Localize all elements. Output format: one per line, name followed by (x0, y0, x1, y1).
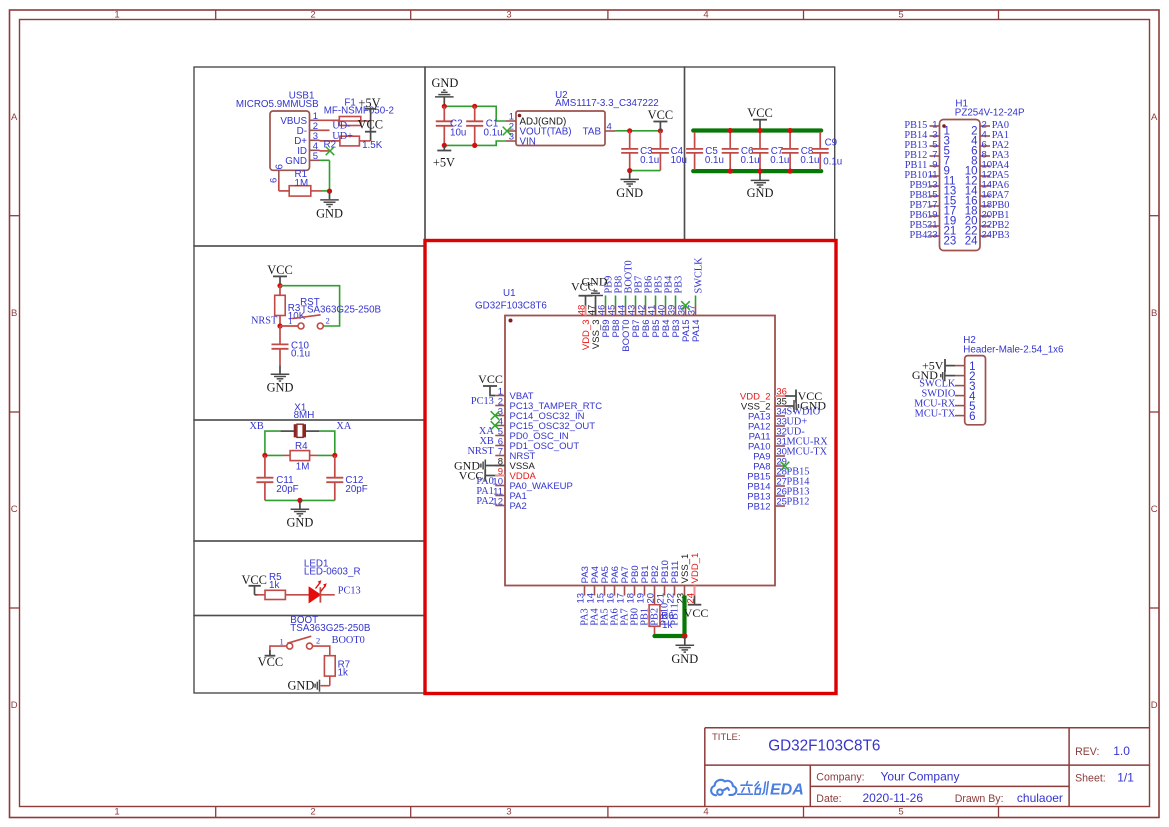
U2 pin 4 TAB stub (605, 130, 615, 132)
U1 pin 37 stub (695, 306, 697, 316)
H1 pin 24 stub (980, 235, 990, 237)
junction VCC C4 top (658, 128, 663, 133)
power flag +5V below rail (443, 145, 445, 150)
svg-text:TSA363G25-250B: TSA363G25-250B (290, 623, 371, 634)
ground GND below C3 (629, 171, 631, 179)
svg-text:6: 6 (275, 164, 286, 170)
svg-text:PB4: PB4 (910, 230, 928, 241)
logo LCEDA cloud (711, 780, 736, 795)
U1 VDD pin stub highlights (495, 475, 505, 477)
svg-text:VDD_1: VDD_1 (690, 553, 701, 584)
wire VCC thick rail top (693, 128, 821, 132)
U1 pin 43 stub (635, 306, 637, 316)
ground GND below MCU (684, 637, 686, 645)
svg-text:TITLE:: TITLE: (712, 732, 741, 743)
no-connect X on U1 pin29 (781, 462, 790, 471)
svg-text:Drawn By:: Drawn By: (955, 793, 1004, 805)
junction C2 top (442, 104, 447, 109)
junction NRST node (277, 323, 282, 328)
wire F1 to +5V node (361, 120, 371, 122)
svg-text:VCC: VCC (267, 263, 292, 277)
U2 pin1 marker dot (518, 114, 522, 118)
svg-text:1.0: 1.0 (1113, 744, 1130, 758)
capacitor C2 (443, 106, 445, 121)
U1 pin 29 stub (775, 465, 785, 467)
power flag VCC reset (279, 276, 281, 285)
U1 pin 18 stub (634, 586, 636, 596)
svg-text:SWCLK: SWCLK (694, 257, 705, 294)
U1 pin 7 stub (495, 455, 505, 457)
wire crystal bottom (265, 499, 335, 501)
wire +5V rail to U2 pin3 (444, 141, 506, 145)
power flag VCC boot (270, 646, 287, 656)
junction C3 top (627, 128, 632, 133)
svg-text:PC13: PC13 (471, 396, 494, 407)
H2 pin 4 stub (955, 395, 965, 397)
svg-text:PB3: PB3 (992, 230, 1010, 241)
svg-text:NRST: NRST (251, 316, 278, 327)
logo text LiChuang (738, 782, 769, 795)
junction C1 bottom (472, 143, 477, 148)
svg-text:5: 5 (313, 151, 318, 162)
svg-text:TAB: TAB (583, 127, 602, 138)
U1 pin 5 stub (495, 435, 505, 437)
svg-text:6: 6 (268, 178, 279, 183)
U1 pin 39 stub (675, 306, 677, 316)
H1 pin 5 stub (930, 145, 940, 147)
svg-text:PA14: PA14 (691, 320, 702, 343)
ground GND flag top-left of regulator (443, 98, 445, 107)
capacitor C10 (279, 326, 281, 344)
U1 pin 35 stub (775, 405, 785, 407)
power flag VCC caps rail (759, 120, 761, 129)
svg-text:PC13: PC13 (338, 585, 361, 596)
svg-text:0.1u: 0.1u (741, 155, 760, 166)
U1 pin 30 stub (775, 455, 785, 457)
svg-text:GND: GND (316, 206, 343, 220)
U1 pin 47 stub (595, 306, 597, 316)
svg-text:UD+: UD+ (332, 131, 353, 142)
junction crystal ground (297, 498, 302, 503)
svg-text:GND: GND (800, 399, 826, 413)
H2 pin 6 stub (955, 415, 965, 417)
svg-text:VCC: VCC (258, 655, 283, 669)
U1 pin 36 stub (775, 395, 785, 397)
svg-text:2: 2 (310, 10, 315, 21)
svg-text:0.1u: 0.1u (823, 156, 842, 167)
section box crystal (194, 420, 425, 541)
svg-text:24: 24 (965, 236, 978, 248)
USB1 pin 6 stub (278, 170, 280, 180)
no-connect X on USB pin4 (326, 147, 335, 156)
svg-text:8MH: 8MH (294, 410, 315, 421)
MCU U1 body (505, 316, 775, 586)
svg-text:XB: XB (250, 421, 264, 432)
svg-text:LED-0603_R: LED-0603_R (304, 567, 361, 578)
H2 pin 2 stub (955, 375, 965, 377)
U1 pin 25 stub (775, 505, 785, 507)
resistor R3 (279, 286, 281, 296)
svg-text:MCU-TX: MCU-TX (787, 446, 828, 457)
svg-text:Sheet:: Sheet: (1075, 772, 1106, 784)
H1 pin 23 stub (930, 235, 940, 237)
junction caps rail top (788, 128, 793, 133)
svg-text:EDA: EDA (770, 782, 804, 799)
svg-text:+5V: +5V (358, 96, 380, 110)
svg-text:1k: 1k (662, 620, 672, 631)
svg-text:PA2: PA2 (510, 501, 527, 512)
svg-text:2: 2 (316, 635, 320, 645)
junction VCC R3 top (277, 283, 282, 288)
svg-text:1: 1 (114, 10, 119, 21)
resistor R1 (289, 186, 311, 196)
wire R7 to ground (321, 685, 330, 687)
no-connect X on U1 pin4 (491, 421, 500, 430)
power flag +5V at H2 pin1 (945, 365, 955, 367)
svg-text:R4: R4 (295, 441, 308, 452)
wire R1 to ground junction (322, 190, 330, 192)
wire ID pin4 (320, 150, 330, 152)
wire C3 bottom to C4 bottom (630, 170, 661, 172)
U1 pin 19 stub (644, 586, 646, 596)
H1 pin 8 stub (980, 155, 990, 157)
H1 pin 11 stub (930, 175, 940, 177)
svg-text:MICRO5.9MMUSB: MICRO5.9MMUSB (236, 99, 319, 110)
regulator U2 body (516, 111, 605, 146)
svg-text:0.1u: 0.1u (770, 155, 789, 166)
junction caps rail top (757, 128, 762, 133)
connector USB1 body (270, 111, 310, 170)
U2 pin 1 stub (506, 120, 516, 122)
svg-text:1/1: 1/1 (1117, 770, 1134, 784)
svg-text:VCC: VCC (358, 117, 383, 131)
resistor R7 (324, 656, 335, 676)
svg-text:1M: 1M (295, 178, 309, 189)
svg-text:12: 12 (492, 496, 503, 507)
svg-text:3: 3 (506, 10, 511, 21)
H1 pin 19 stub (930, 215, 940, 217)
H1 pin 10 stub (980, 165, 990, 167)
svg-text:PB12: PB12 (787, 496, 810, 507)
svg-text:BOOT0: BOOT0 (332, 635, 365, 646)
wire VCC to R5 (255, 594, 259, 596)
U1 pin1 marker dot (509, 319, 513, 323)
junction USB ground node (327, 189, 332, 194)
wire VCC to switch pin2 loop (280, 286, 340, 326)
H1 pin 1 stub (930, 125, 940, 127)
capacitor C5 (694, 132, 696, 149)
power flag VCC for R2 (370, 121, 372, 141)
wire net stub BOOT0 (625, 296, 627, 306)
H1 pin 17 stub (930, 205, 940, 207)
svg-text:XA: XA (336, 421, 351, 432)
junction caps rail top (728, 128, 733, 133)
svg-text:0.1u: 0.1u (640, 155, 659, 166)
U2 pin 3 stub (506, 140, 516, 142)
switch RST TSA363G25-250B (298, 323, 304, 329)
junction C2 bottom (442, 143, 447, 148)
svg-text:20pF: 20pF (345, 484, 367, 495)
svg-text:4: 4 (703, 10, 708, 21)
resistor R5 (257, 594, 266, 596)
connector H1 body (940, 120, 981, 251)
connector H2 body (965, 356, 986, 425)
U1 pin 14 stub (594, 586, 596, 596)
U1 pin 45 stub (615, 306, 617, 316)
svg-text:1: 1 (279, 636, 283, 646)
svg-text:GND: GND (747, 186, 774, 200)
U1 pin 12 stub (495, 505, 505, 507)
wire net stub PB5 (655, 296, 657, 306)
junction XB node (262, 453, 267, 458)
junction caps rail bottom (728, 169, 733, 174)
U1 pin 40 stub (665, 306, 667, 316)
U1 pin 27 stub (775, 485, 785, 487)
U1 pin 42 stub (645, 306, 647, 316)
resistor R2 (340, 136, 360, 146)
svg-text:VCC: VCC (478, 372, 503, 386)
wire crystal loop right (319, 431, 334, 455)
ground GND caps rail (759, 172, 761, 180)
svg-text:UD-: UD- (332, 121, 351, 132)
power flag VCC at U1 pin48 (585, 296, 587, 306)
svg-text:U1: U1 (503, 288, 516, 299)
svg-text:A: A (1151, 112, 1158, 123)
U1 pin 44 stub (625, 306, 627, 316)
USB1 pin 4 stub (310, 149, 320, 151)
no-connect X on U2 pin2 (503, 127, 512, 136)
svg-text:4: 4 (703, 807, 708, 818)
capacitor C12 (334, 455, 336, 477)
svg-text:1: 1 (114, 807, 119, 818)
svg-text:PB12: PB12 (747, 502, 770, 513)
svg-text:REV:: REV: (1075, 746, 1099, 758)
svg-text:D: D (11, 700, 18, 711)
USB1 pin 1 stub (310, 119, 320, 121)
junction caps rail bottom (788, 169, 793, 174)
wire net stub PB9 (605, 296, 607, 306)
svg-text:GD32F103C8T6: GD32F103C8T6 (768, 737, 880, 754)
H1 pin 20 stub (980, 215, 990, 217)
U1 pin 21 stub (664, 586, 666, 596)
U1 pin 16 stub (614, 586, 616, 596)
wire VSS_1 to ground thick (682, 596, 686, 637)
U1 pin 22 stub (674, 586, 676, 596)
no-connect X on U1 pin3 (491, 411, 500, 420)
ground GND boot sideways (319, 680, 321, 692)
U1 pin 1 stub (495, 395, 505, 397)
wire GND pin5 to ground (320, 159, 330, 161)
title block outline (705, 727, 1150, 729)
junction C1 top (472, 104, 477, 109)
red highlight box around MCU (425, 241, 836, 694)
section box reset (194, 246, 425, 420)
svg-text:Your Company: Your Company (881, 770, 960, 784)
svg-text:10u: 10u (450, 128, 466, 139)
wire pin6 to R1 (278, 180, 280, 191)
svg-text:4: 4 (607, 122, 612, 133)
svg-text:1k: 1k (269, 580, 279, 591)
wire crystal loop left (265, 431, 281, 455)
svg-text:3: 3 (506, 807, 511, 818)
svg-text:VIN: VIN (520, 137, 536, 148)
section box regulator (425, 67, 685, 241)
svg-text:VCC: VCC (648, 108, 673, 122)
resistor R4 (283, 454, 290, 456)
U1 pin 11 stub (495, 495, 505, 497)
svg-text:chulaoer: chulaoer (1017, 791, 1063, 805)
fuse F1 (339, 117, 361, 126)
wire R4 right (317, 454, 335, 456)
svg-text:NRST: NRST (467, 446, 494, 457)
capacitor C3 (629, 131, 631, 149)
svg-text:VCC: VCC (459, 468, 484, 482)
H1 pin 3 stub (930, 135, 940, 137)
U1 pin 32 stub (775, 435, 785, 437)
U1 pin 6 stub (495, 445, 505, 447)
capacitor C6 (729, 132, 731, 149)
svg-text:20pF: 20pF (276, 484, 298, 495)
capacitor C7 (759, 132, 761, 149)
capacitor C8 (789, 132, 791, 149)
ground GND at U1 pin35 (785, 405, 794, 407)
svg-text:GND: GND (267, 381, 294, 395)
svg-text:23: 23 (927, 229, 938, 240)
H1 pin 4 stub (980, 135, 990, 137)
no-connect X on U1 pin38 (681, 301, 690, 310)
power flag VCC at U1 pin24 (694, 596, 696, 605)
U1 pin 8 stub (495, 465, 505, 467)
U1 pin 26 stub (775, 495, 785, 497)
svg-text:5: 5 (898, 807, 903, 818)
U1 pin 23 stub (684, 586, 686, 596)
svg-text:C: C (1151, 504, 1158, 515)
H2 pin 1 stub (955, 365, 965, 367)
svg-text:GND: GND (616, 186, 643, 200)
U1 pin 24 stub (694, 586, 696, 596)
H1 pin 9 stub (930, 165, 940, 167)
junction caps rail bottom (757, 169, 762, 174)
U1 pin 13 stub (584, 586, 586, 596)
H1 pin 16 stub (980, 195, 990, 197)
border column ticks (215, 10, 217, 20)
svg-text:10u: 10u (671, 155, 687, 166)
wire GND thick rail bottom (693, 169, 821, 173)
svg-text:TSA363G25-250B: TSA363G25-250B (301, 305, 382, 316)
capacitor C11 (264, 455, 266, 477)
svg-text:B: B (1151, 308, 1157, 319)
svg-text:1: 1 (288, 316, 292, 326)
USB1 pin 3 stub (310, 139, 320, 141)
wire GND rail to U2 pin1 (444, 106, 506, 121)
svg-text:GND: GND (285, 156, 307, 167)
capacitor C9 (819, 132, 821, 149)
wire D+ pin3 to R2 (320, 140, 340, 142)
svg-text:2020-11-26: 2020-11-26 (863, 791, 924, 805)
H1 pin 21 stub (930, 225, 940, 227)
section box BOOT (194, 616, 425, 694)
H1 pin 7 stub (930, 155, 940, 157)
USB1 pin 5 stub (310, 159, 320, 161)
svg-text:2: 2 (310, 807, 315, 818)
svg-text:Company:: Company: (816, 772, 864, 784)
border row ticks (10, 215, 20, 217)
svg-text:Header-Male-2.54_1x6: Header-Male-2.54_1x6 (963, 345, 1064, 356)
svg-text:25: 25 (776, 496, 787, 507)
U1 pin 10 stub (495, 485, 505, 487)
ground GND at H2 pin2 (945, 375, 955, 377)
svg-text:C9: C9 (825, 138, 838, 149)
H1 pin 15 stub (930, 195, 940, 197)
svg-text:5: 5 (898, 10, 903, 21)
svg-text:GND: GND (671, 652, 698, 666)
H1 pin1 marker dot (942, 124, 946, 128)
U1 pin 3 stub (495, 415, 505, 417)
junction MCU ground node (682, 633, 688, 639)
power flag VCC at U1 pin1 (490, 386, 495, 396)
U2 pin 2 stub (506, 130, 516, 132)
H1 pin 2 stub (980, 125, 990, 127)
U1 pin 17 stub (624, 586, 626, 596)
U1 pin 34 stub (775, 415, 785, 417)
U1 pin 33 stub (775, 425, 785, 427)
svg-text:GND: GND (582, 274, 608, 288)
wire net stub PB3 (675, 296, 677, 306)
capacitor C1 (474, 106, 476, 121)
U1 pin 28 stub (775, 475, 785, 477)
svg-text:D: D (1151, 700, 1158, 711)
svg-text:GND: GND (431, 76, 458, 90)
H1 pin 18 stub (980, 205, 990, 207)
svg-text:GND: GND (287, 679, 314, 693)
H1 pin 6 stub (980, 145, 990, 147)
U1 pin 9 stub (495, 475, 505, 477)
capacitor C4 (659, 131, 661, 149)
svg-text:PB3: PB3 (674, 276, 685, 294)
svg-text:GD32F103C8T6: GD32F103C8T6 (475, 301, 547, 312)
svg-text:6: 6 (969, 411, 975, 423)
ground GND below C10 (279, 365, 281, 373)
U1 pin 2 stub (495, 405, 505, 407)
U1 pin 20 stub (654, 586, 656, 596)
H1 pin 22 stub (980, 225, 990, 227)
svg-text:24: 24 (982, 229, 993, 240)
wire R6 to ground thick (655, 634, 685, 638)
ground GND at U1 pin8 (485, 465, 505, 467)
U1 pin 31 stub (775, 445, 785, 447)
svg-text:0.1u: 0.1u (484, 128, 503, 139)
wire D- pin2 (320, 129, 330, 131)
svg-text:1.5K: 1.5K (362, 140, 383, 151)
svg-text:PZ254V-12-24P: PZ254V-12-24P (955, 108, 1025, 119)
U1 pin 38 stub (685, 306, 687, 316)
svg-text:23: 23 (944, 236, 957, 248)
section box decoupling caps (685, 67, 835, 241)
svg-text:+5V: +5V (433, 156, 455, 170)
wire net stub PB6 (645, 296, 647, 306)
svg-text:0.1u: 0.1u (800, 155, 819, 166)
power flag VCC regulator output (659, 122, 661, 131)
junction XA node (332, 453, 337, 458)
USB1 pin 2 stub (310, 129, 320, 131)
U1 pin 41 stub (655, 306, 657, 316)
svg-text:2: 2 (326, 315, 330, 325)
U1 pin 46 stub (605, 306, 607, 316)
ground GND at U1 pin47 (595, 296, 597, 316)
svg-text:Date:: Date: (816, 793, 841, 805)
wire R4 left (265, 454, 283, 456)
wire NRST to switch pin1 (280, 325, 298, 327)
